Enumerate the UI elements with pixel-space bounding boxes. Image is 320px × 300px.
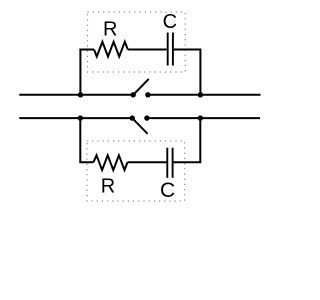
resistor R (bottom) bbox=[94, 155, 128, 170]
wire top bus left segment bbox=[19, 94, 133, 96]
wire C to bottom-right riser bbox=[174, 118, 201, 162]
wire bottom-left dropper bbox=[80, 118, 93, 162]
junction node (top-right) bbox=[198, 92, 203, 97]
junction node (bottom-left) bbox=[78, 115, 83, 120]
capacitor C (top) bbox=[168, 33, 173, 66]
wire R to C (bottom) bbox=[128, 161, 167, 163]
wire bottom bus left segment bbox=[19, 117, 132, 119]
wire C to top-right riser bbox=[174, 50, 201, 95]
svg-text:R: R bbox=[101, 176, 115, 198]
wire top-left riser bbox=[80, 50, 94, 95]
switch SW2 (bottom) bbox=[130, 115, 150, 133]
wire R to C (top) bbox=[128, 49, 167, 51]
svg-text:C: C bbox=[160, 179, 175, 202]
wire top bus right segment bbox=[148, 94, 261, 96]
svg-text:R: R bbox=[103, 19, 117, 41]
junction node (top-left) bbox=[78, 92, 83, 97]
snubber enclosure box (top, dotted) bbox=[88, 12, 186, 72]
wire bottom bus right segment bbox=[147, 117, 260, 119]
capacitor C (bottom) bbox=[167, 148, 172, 178]
junction node (bottom-right) bbox=[198, 115, 203, 120]
svg-text:C: C bbox=[163, 11, 177, 33]
resistor R (top) bbox=[94, 42, 128, 57]
snubber enclosure box (bottom, dotted) bbox=[87, 141, 185, 201]
switch SW1 (top) bbox=[131, 79, 151, 98]
